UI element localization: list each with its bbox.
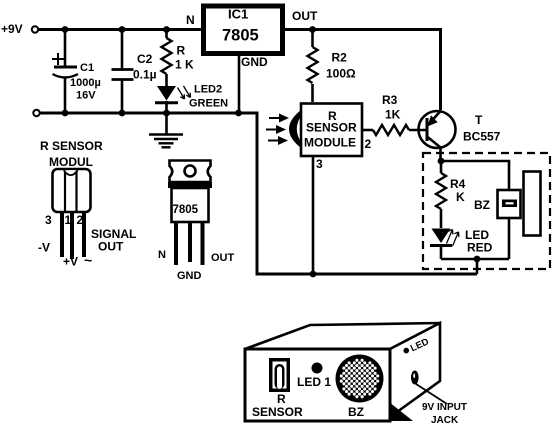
svg-text:1: 1 (65, 213, 72, 227)
svg-text:0.1µ: 0.1µ (133, 68, 157, 82)
svg-text:GND: GND (241, 55, 268, 69)
svg-text:C2: C2 (137, 52, 153, 66)
svg-text:+9V: +9V (1, 22, 23, 36)
svg-text:OUT: OUT (98, 240, 124, 254)
svg-text:BC557: BC557 (463, 130, 501, 144)
svg-text:C1: C1 (80, 62, 94, 74)
svg-text:1K: 1K (385, 108, 401, 122)
svg-text:R SENSOR: R SENSOR (40, 139, 103, 153)
svg-text:GND: GND (177, 270, 202, 282)
svg-text:N: N (186, 13, 195, 27)
svg-text:LED2: LED2 (194, 84, 222, 96)
svg-text:JACK: JACK (431, 415, 459, 426)
svg-text:3: 3 (316, 157, 323, 171)
svg-text:SENSOR: SENSOR (306, 121, 357, 135)
svg-text:T: T (475, 113, 483, 127)
svg-text:IC1: IC1 (228, 7, 248, 22)
svg-text:-V: -V (38, 241, 50, 255)
svg-text:+V: +V (63, 255, 78, 269)
svg-text:2: 2 (77, 213, 84, 227)
svg-text:3: 3 (45, 213, 52, 227)
svg-text:RED: RED (467, 241, 493, 255)
svg-text:2: 2 (365, 137, 372, 151)
svg-text:LED 1: LED 1 (297, 375, 331, 389)
svg-text:100Ω: 100Ω (326, 67, 356, 81)
svg-text:16V: 16V (76, 90, 96, 102)
svg-text:N: N (158, 249, 166, 261)
svg-text:MODULE: MODULE (304, 136, 356, 150)
svg-text:BZ: BZ (474, 198, 490, 212)
svg-text:R: R (177, 44, 186, 58)
svg-text:9V INPUT: 9V INPUT (422, 402, 467, 413)
svg-text:SENSOR: SENSOR (252, 405, 303, 419)
svg-text:BZ: BZ (348, 405, 364, 419)
svg-text:OUT: OUT (292, 9, 318, 23)
svg-text:MODUL: MODUL (49, 155, 93, 169)
svg-text:GREEN: GREEN (189, 98, 228, 110)
svg-text:7805: 7805 (222, 27, 259, 45)
svg-text:7805: 7805 (173, 204, 199, 216)
svg-text:R4: R4 (450, 177, 466, 191)
svg-text:R: R (277, 392, 286, 406)
svg-text:R3: R3 (382, 93, 398, 107)
svg-text:OUT: OUT (211, 252, 235, 264)
svg-text:1 K: 1 K (175, 58, 194, 72)
svg-text:1000µ: 1000µ (70, 77, 101, 89)
svg-text:~: ~ (84, 252, 92, 268)
svg-text:K: K (456, 190, 465, 204)
svg-text:R2: R2 (332, 51, 348, 65)
